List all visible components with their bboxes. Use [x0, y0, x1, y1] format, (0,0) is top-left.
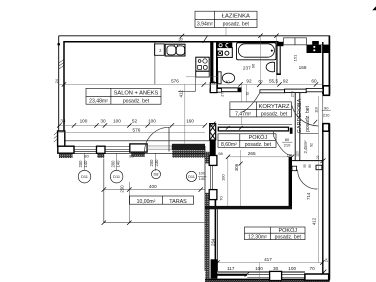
svg-text:23,48m²: 23,48m² [89, 99, 108, 105]
wall end cap box [210, 83, 217, 93]
svg-text:GARDEROBA: GARDEROBA [297, 98, 303, 133]
svg-text:100: 100 [221, 174, 226, 181]
SALON box [86, 88, 161, 104]
svg-text:24: 24 [325, 258, 329, 262]
svg-text:12,30m²: 12,30m² [248, 234, 267, 240]
extension line window [258, 263, 260, 280]
svg-text:TARAS: TARAS [169, 199, 187, 205]
survey dot [57, 43, 60, 46]
top wall inner face [64, 41, 278, 43]
right wall lower part [328, 124, 330, 280]
svg-text:110: 110 [314, 107, 318, 113]
door threshold salon [148, 146, 172, 149]
wall between pokoj rooms [205, 206, 292, 209]
svg-text:70: 70 [309, 266, 315, 271]
svg-text:576: 576 [132, 127, 140, 132]
window D11 jamb bottom [209, 190, 217, 200]
svg-text:102: 102 [316, 155, 320, 161]
garderoba door [292, 106, 319, 127]
svg-text:306: 306 [234, 163, 239, 171]
svg-text:120: 120 [296, 151, 300, 157]
svg-text:70: 70 [219, 196, 224, 201]
right wall outer lines [328, 36, 330, 94]
svg-text:100: 100 [255, 266, 263, 271]
KORYTARZ box [230, 102, 292, 117]
svg-text:60: 60 [258, 80, 262, 84]
window circles [78, 153, 196, 183]
dimension slash ticks [62, 34, 327, 277]
svg-text:100: 100 [288, 266, 296, 271]
salon door [168, 127, 170, 151]
svg-text:210: 210 [284, 143, 291, 148]
WALLS [57, 36, 330, 282]
left outer line [58, 36, 60, 131]
window D11 glazing [74, 149, 97, 151]
svg-text:160: 160 [186, 119, 194, 124]
svg-text:D11: D11 [81, 174, 88, 179]
svg-text:210: 210 [323, 112, 330, 117]
svg-text:412: 412 [311, 217, 316, 225]
svg-text:24: 24 [212, 81, 216, 85]
wall salon/pokoj with X braces [210, 124, 216, 140]
svg-text:2,45m²: 2,45m² [303, 140, 308, 154]
svg-text:80: 80 [84, 154, 89, 159]
POKOJ 8,60 box [218, 134, 276, 148]
svg-text:96: 96 [250, 63, 255, 68]
svg-text:posadz. bet: posadz. bet [245, 142, 272, 148]
svg-text:275: 275 [220, 91, 224, 97]
LABEL BOXES [86, 11, 305, 239]
svg-text:62: 62 [246, 92, 250, 96]
toilet [218, 72, 221, 84]
BATHROOM fixtures [217, 43, 276, 84]
pokoj 8,60 top wall [218, 125, 293, 134]
svg-text:7,47m²: 7,47m² [235, 111, 251, 117]
wall pillar 30 [97, 146, 106, 153]
svg-text:140: 140 [83, 160, 88, 168]
window D11 west glazing [209, 165, 211, 189]
chain ticks bottom salon [57, 123, 207, 127]
svg-text:80: 80 [285, 137, 290, 142]
svg-text:168: 168 [299, 65, 307, 70]
SALON bottom wall band [58, 131, 210, 158]
svg-text:714: 714 [306, 192, 311, 200]
fraction labels [198, 105, 331, 180]
KITCHEN [155, 42, 210, 91]
svg-text:posadz. bet: posadz. bet [223, 22, 250, 28]
svg-text:265: 265 [248, 151, 256, 156]
svg-text:posadz. bet: posadz. bet [123, 99, 150, 105]
corner block 34 [58, 146, 74, 153]
TERRACE [104, 159, 205, 223]
svg-text:100: 100 [148, 119, 156, 124]
svg-text:posadz. bet: posadz. bet [261, 111, 288, 117]
svg-text:100: 100 [113, 119, 121, 124]
svg-text:254: 254 [210, 238, 215, 246]
washer/dryer stack [217, 48, 232, 58]
svg-text:8,60m²: 8,60m² [221, 142, 237, 148]
LAZIENKA box [195, 11, 257, 27]
svg-text:ŁAZIENKA: ŁAZIENKA [222, 13, 250, 19]
corner mark [372, 6, 376, 10]
niche left jamb [277, 42, 284, 46]
circle labels [81, 172, 195, 179]
svg-text:400: 400 [149, 184, 157, 189]
svg-text:30: 30 [100, 119, 106, 124]
bottom wall pillar 70 [305, 274, 329, 280]
svg-text:52: 52 [132, 119, 138, 124]
svg-text:POKÓJ: POKÓJ [278, 227, 297, 234]
svg-text:55,5: 55,5 [269, 79, 279, 84]
svg-text:92: 92 [283, 79, 289, 84]
svg-text:89: 89 [308, 164, 312, 168]
left wall hatch squiggles [54, 60, 64, 143]
bottom-left corner wall [211, 259, 218, 278]
svg-text:SALON + ANEKS: SALON + ANEKS [114, 91, 159, 97]
svg-text:34: 34 [60, 119, 66, 124]
svg-text:40: 40 [226, 80, 230, 84]
bottom wall hatch [205, 280, 330, 282]
dimension numbers horizontal [60, 37, 317, 270]
svg-text:posadz. bet: posadz. bet [275, 234, 302, 240]
svg-text:140: 140 [198, 176, 205, 181]
bathroom partition wall [276, 42, 281, 75]
bottom wall of pokoj 12,30 [205, 279, 330, 281]
svg-text:92: 92 [246, 79, 252, 84]
svg-text:D11: D11 [113, 174, 120, 179]
svg-text:60: 60 [311, 79, 317, 84]
svg-text:417: 417 [264, 257, 272, 262]
terrace-side exterior wall vertical [205, 146, 217, 280]
svg-text:z: z [159, 48, 161, 53]
pokoj 8,60 door [272, 131, 274, 137]
garderoba partition [292, 93, 323, 170]
svg-text:92: 92 [310, 143, 314, 147]
bathroom door [242, 93, 260, 113]
pokoj 8,60 right wall [289, 157, 292, 206]
svg-text:30: 30 [273, 266, 279, 271]
kitchen/bath wall [210, 42, 213, 92]
salon-corridor sill [210, 89, 222, 93]
svg-text:275: 275 [291, 91, 295, 97]
svg-text:117: 117 [227, 266, 235, 271]
svg-text:10,00m²: 10,00m² [137, 199, 156, 205]
svg-text:90: 90 [324, 105, 329, 110]
svg-text:576: 576 [171, 78, 179, 83]
stove [196, 57, 209, 71]
TARAS box [130, 196, 194, 204]
svg-text:3,94m²: 3,94m² [197, 22, 213, 28]
DOORS (arcs) [145, 93, 319, 189]
bottom wall pillar 30 [270, 271, 282, 280]
top wall step at bathroom [277, 41, 279, 45]
niche boxes [284, 38, 296, 45]
svg-text:POKÓJ: POKÓJ [249, 134, 268, 141]
svg-text:80: 80 [129, 154, 134, 159]
svg-text:D11: D11 [188, 174, 195, 179]
corridor top walls and sills [210, 83, 323, 93]
POKOJ 12,30 box [245, 227, 306, 240]
top outer line [59, 35, 330, 37]
washbasin [266, 62, 274, 72]
svg-text:30: 30 [178, 37, 182, 41]
svg-text:151: 151 [293, 54, 298, 61]
svg-text:230: 230 [154, 159, 159, 167]
svg-text:posadz. bet: posadz. bet [305, 105, 311, 131]
left wall corner pillar [58, 131, 65, 146]
top-right thick band with shaft [307, 45, 330, 53]
svg-text:KORYTARZ: KORYTARZ [258, 104, 289, 110]
window D11 glazing 2 [105, 149, 129, 151]
rotated dimension numbers [55, 54, 328, 262]
wall pillar 52 [130, 144, 147, 152]
svg-text:412: 412 [178, 90, 183, 98]
window label texts rotated [78, 159, 159, 168]
svg-text:D8: D8 [154, 172, 159, 177]
svg-text:100: 100 [80, 119, 88, 124]
svg-text:55: 55 [303, 164, 307, 168]
right solid segment [172, 144, 205, 150]
svg-text:98: 98 [218, 151, 223, 156]
svg-text:120: 120 [287, 153, 293, 157]
right wall door gap caps [323, 86, 329, 96]
svg-text:250: 250 [120, 185, 125, 193]
svg-text:24: 24 [55, 79, 59, 83]
svg-text:140: 140 [115, 160, 120, 168]
window D11 jamb top [209, 156, 217, 166]
left wall inner face [63, 41, 65, 146]
DIMENSION LINES [59, 28, 323, 263]
